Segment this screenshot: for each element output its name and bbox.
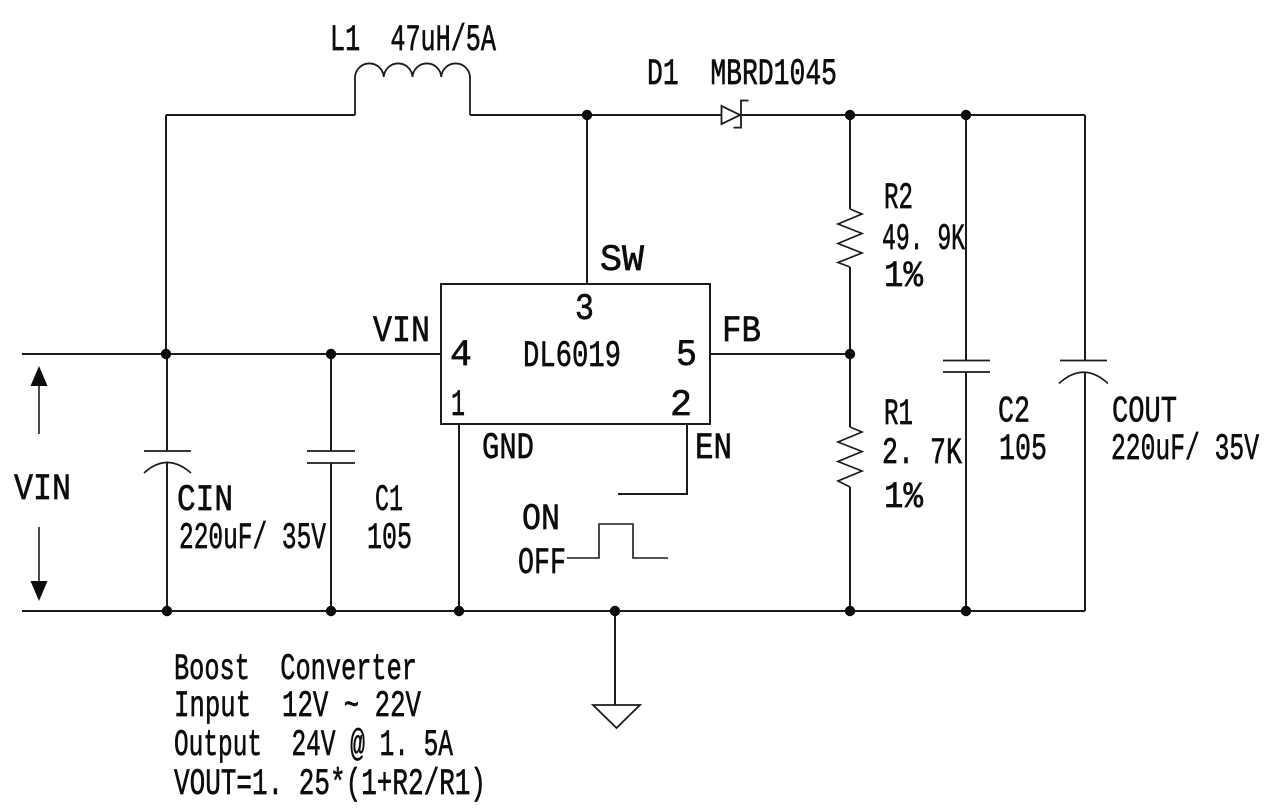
svg-text:VIN: VIN: [14, 469, 71, 511]
svg-text:5: 5: [676, 335, 697, 377]
svg-text:Output 24V @ 1. 5A: Output 24V @ 1. 5A: [174, 725, 454, 767]
svg-text:2: 2: [670, 385, 692, 427]
svg-text:VOUT=1. 25*(1+R2/R1): VOUT=1. 25*(1+R2/R1): [174, 764, 486, 806]
svg-text:2. 7K: 2. 7K: [882, 433, 963, 475]
svg-text:49. 9K: 49. 9K: [882, 219, 965, 261]
svg-text:Input 12V ~ 22V: Input 12V ~ 22V: [174, 686, 421, 728]
svg-text:4: 4: [450, 335, 472, 377]
svg-text:220uF/ 35V: 220uF/ 35V: [1111, 429, 1259, 471]
svg-text:D1 MBRD1045: D1 MBRD1045: [647, 54, 837, 96]
svg-text:3: 3: [575, 289, 594, 331]
svg-text:220uF/ 35V: 220uF/ 35V: [179, 518, 326, 560]
svg-text:COUT: COUT: [1112, 392, 1177, 434]
svg-text:1: 1: [451, 385, 465, 427]
svg-text:OFF: OFF: [518, 543, 566, 585]
svg-text:DL6019: DL6019: [523, 336, 621, 378]
svg-text:R1: R1: [884, 394, 913, 436]
svg-text:1%: 1%: [884, 256, 924, 298]
svg-text:VIN: VIN: [373, 311, 430, 353]
svg-text:R2: R2: [884, 178, 913, 220]
svg-text:CIN: CIN: [177, 480, 233, 522]
svg-text:ON: ON: [522, 499, 560, 541]
svg-text:1%: 1%: [884, 477, 924, 519]
svg-text:SW: SW: [600, 240, 645, 282]
svg-text:C2: C2: [998, 392, 1030, 434]
svg-text:GND: GND: [482, 428, 534, 470]
svg-text:105: 105: [999, 429, 1047, 471]
svg-text:FB: FB: [722, 311, 761, 353]
svg-text:EN: EN: [695, 428, 732, 470]
svg-text:105: 105: [367, 518, 412, 560]
svg-text:Boost Converter: Boost Converter: [174, 649, 417, 691]
svg-text:C1: C1: [375, 480, 403, 522]
svg-text:L1 47uH/5A: L1 47uH/5A: [330, 20, 497, 62]
